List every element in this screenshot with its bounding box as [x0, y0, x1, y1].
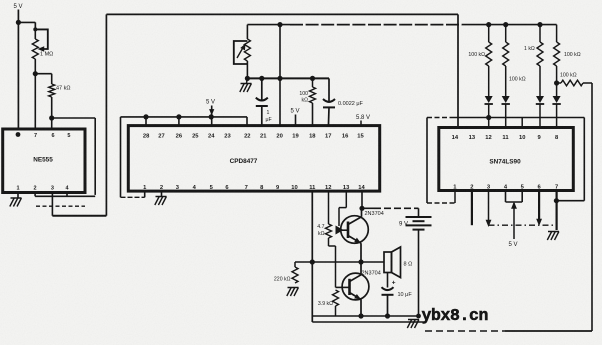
node junction Q1 emitter — [358, 259, 363, 264]
resistor R7 1k (col3) — [539, 25, 541, 42]
ground (NE555 pin 1) — [11, 197, 22, 199]
wire 47k bottom to pin 6 — [51, 97, 53, 129]
wire 220k branch — [295, 261, 312, 263]
ground (R10) — [288, 287, 299, 289]
resistor R12 3.9k — [333, 290, 339, 306]
wire D3 to pin 9 — [539, 105, 541, 130]
wire bus corner to pin 22 — [246, 117, 248, 127]
wire ground stub (pot R3) — [246, 78, 249, 83]
op-amp U1 NE555 box — [3, 129, 85, 193]
wire pin 7 stub — [555, 191, 557, 231]
transistor Q1 2N3704 — [341, 216, 369, 244]
node junction R4 top — [310, 76, 315, 81]
wire stub pin 26 — [178, 117, 180, 127]
node junction col4 / R9 — [554, 80, 559, 85]
resistor R4 100k — [312, 78, 314, 87]
node top-bus junction col3 — [537, 22, 542, 27]
wire D2 to pin 11 — [505, 105, 507, 130]
wire feedback to pin 2 loop — [52, 117, 95, 119]
wire branch to 47k — [35, 73, 52, 75]
wire branch to potentiometer R1 — [18, 21, 36, 23]
wire pin 3 stub with arrow — [488, 191, 490, 222]
speaker LS1 — [384, 252, 392, 273]
wire gating rail dash-dot — [489, 224, 557, 226]
potentiometer R3 wiper loop — [234, 41, 248, 64]
node loop junction pin12 riser — [486, 115, 491, 120]
wire pot R3 top riser — [246, 25, 248, 39]
wire top border run — [106, 13, 458, 15]
wire pot R3 bottom — [246, 61, 248, 78]
node junction emitter node / pin11 — [310, 259, 315, 264]
wire pin 2 to ground (U2) — [161, 191, 163, 196]
wire D4 to pin 8 — [556, 105, 558, 130]
ground (U2 pin 2) — [156, 196, 167, 198]
node bus junction pin 26 — [176, 114, 181, 119]
diode D4 — [553, 96, 561, 103]
wire pin 1 dashed link — [427, 202, 455, 204]
node bus junction pin 28 — [143, 114, 148, 119]
node junction C1 top — [259, 76, 264, 81]
wire loop top (U3) — [427, 117, 450, 119]
node junction pin7/pot/47k — [33, 71, 38, 76]
node junction battery/rail — [416, 314, 421, 319]
capacitor C2 0.0022uF — [328, 78, 330, 101]
node Q1 base arrow — [336, 226, 344, 235]
diode D3 — [536, 96, 544, 103]
node junction Q2 emitter rail — [358, 313, 363, 318]
wire loop right side — [583, 118, 585, 201]
resistor R5 100k (col1) — [488, 25, 490, 42]
resistor R10 220k — [292, 267, 298, 283]
wire pins 4-5 tie — [505, 191, 507, 203]
wire amp box bottom — [312, 321, 425, 323]
node junction 5V/pot — [16, 20, 21, 25]
node junction pot bottom bus — [245, 76, 250, 81]
wire emitter node run — [312, 261, 384, 263]
wire top border drop to U3 pin 14 — [457, 14, 459, 129]
ground (pot R3) — [241, 83, 252, 85]
pin 8 (NE555 top) — [16, 132, 21, 137]
wire pin 2 / pin 4 tie — [34, 193, 36, 197]
wire pin 6 stub with arrow — [538, 191, 540, 220]
wire speaker to C4 — [387, 273, 389, 288]
wire bottom return dashed — [425, 330, 505, 332]
wire R11 to Q2 base — [328, 238, 330, 246]
resistor R11 4.7k — [326, 224, 332, 238]
wire pin 20 riser to top bus — [279, 25, 281, 127]
wire junction down to pin 7 — [34, 74, 36, 129]
node junction pin20 riser — [277, 76, 282, 81]
resistor R6 100k (col2) — [505, 25, 507, 42]
diode D2 — [502, 96, 510, 103]
wire bus left leg to pin 1 — [120, 117, 122, 197]
node loop junction pin7 — [554, 198, 559, 203]
node top-bus junction col1 — [486, 22, 491, 27]
node junction pin6/feedback — [49, 115, 54, 120]
potentiometer R1 wiper loop — [35, 29, 48, 49]
wire pot wiper tap — [34, 22, 36, 30]
wire D1 to pin 12 — [488, 105, 490, 130]
resistor R8 100k (col4) — [556, 25, 558, 42]
transistor Q2 2N3704 — [342, 273, 369, 300]
resistor R2 47k — [49, 84, 55, 97]
wire pin 12 to R11 — [328, 191, 330, 224]
diode D1 — [485, 96, 493, 103]
wire analog bus y78 — [247, 77, 329, 79]
node bus junction pin 24 — [209, 114, 214, 119]
wire loop bottom to pin 7 — [556, 200, 584, 202]
wire emitter rail — [312, 315, 418, 317]
node junction collector/pin14 — [359, 206, 364, 211]
wire Q1 emitter to Q2 collector — [360, 262, 362, 275]
wire loop left side — [426, 118, 428, 204]
capacitor C1 1uF — [261, 78, 263, 100]
wire pin 3 output run — [51, 193, 53, 216]
wire 5V bus above U2 — [121, 116, 248, 118]
op-amp U2 CPD8477 box — [128, 126, 379, 192]
node top-bus junction col2 — [503, 22, 508, 27]
wire pin 14 stub (U2) — [361, 191, 363, 208]
wire mid top bus — [247, 24, 290, 26]
wire output riser to top border — [105, 14, 107, 215]
node junction C4 rail — [385, 313, 390, 318]
node 5V supply (U3) — [511, 202, 517, 209]
wire Q2 base link — [336, 286, 350, 288]
wire pin 10 stub — [521, 118, 523, 130]
wire pin 11 column (amp left side) — [311, 191, 313, 322]
op-amp U3 SN74LS90 box — [439, 128, 574, 191]
wire pin 13 to Q1 base — [345, 191, 347, 208]
wire pot bottom to junction — [34, 59, 36, 74]
ground (U3 pin 7) — [548, 231, 559, 233]
wire pin 1 to ground — [17, 193, 19, 199]
ground (battery rail) — [408, 319, 419, 321]
potentiometer R3 body — [244, 39, 250, 61]
potentiometer R1 1M body — [32, 39, 38, 59]
battery BT1 9V — [418, 208, 420, 216]
wire right outer drop — [591, 83, 593, 331]
wire 5V rail down to pin 8 — [17, 22, 19, 129]
wire stray dashed segment — [36, 205, 85, 207]
wire pin 2 stub (U3) — [471, 191, 473, 226]
wire collector rail to battery — [362, 207, 375, 209]
wire stub pin 28 — [145, 117, 147, 127]
resistor R9 100k (horizontal) — [557, 82, 561, 84]
